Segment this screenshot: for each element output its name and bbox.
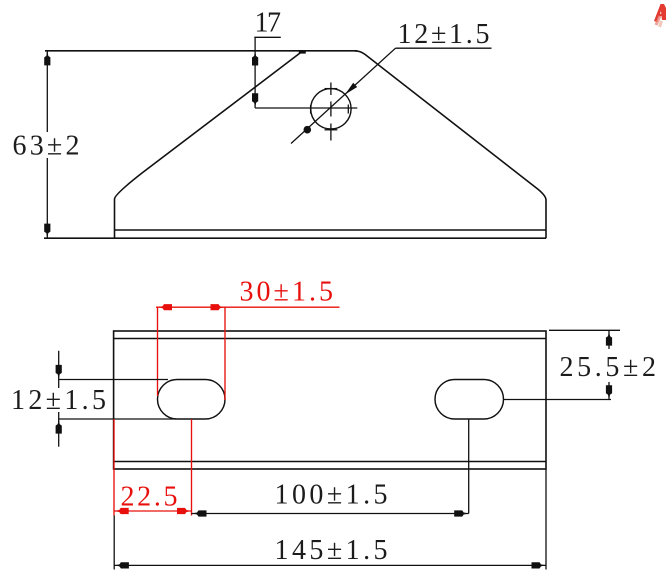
- hole center vertical tick: [330, 102, 332, 117]
- dim 12±1.5 lower extension (bottom view): [59, 418, 176, 420]
- dimension 25.5±2 vertical line: [608, 331, 610, 349]
- 145 right arrow: [532, 562, 547, 568]
- dim 12±1.5 vertical line: [58, 351, 60, 388]
- red corner mark (cropped stamp at top right): [654, 4, 666, 22]
- 145 left arrow: [114, 562, 128, 568]
- 100 right arrow: [454, 510, 469, 516]
- svg-text:63±2: 63±2: [13, 131, 80, 162]
- 25.5±2 bottom arrow: [606, 385, 612, 400]
- leader line for 12±1.5: [291, 48, 396, 143]
- red 30 right extension: [224, 307, 226, 400]
- 145 right extension: [545, 470, 547, 570]
- 12±1.5 lower arrow (points up): [56, 419, 62, 434]
- hole circle: [311, 89, 351, 129]
- dim 12±1.5 upper extension (bottom view): [59, 379, 168, 381]
- base bottom line with left extension: [44, 237, 546, 239]
- leader from slot 2 to 25.5 dim: [504, 399, 612, 401]
- dimension 17 lower arrow: [252, 93, 258, 108]
- svg-text:12±1.5: 12±1.5: [398, 19, 490, 50]
- red 22.5 left arrow: [114, 508, 129, 514]
- svg-text:22.5: 22.5: [121, 482, 178, 513]
- plate outline: [114, 331, 546, 469]
- red 22.5 right extension from slot1 center: [191, 419, 193, 515]
- leader dot: [304, 126, 312, 134]
- hole top quadrant cross: [330, 83, 332, 96]
- slot 1 (left obround): [158, 380, 226, 420]
- red 22.5 left extension (over plate edge): [113, 419, 115, 516]
- lower fold line: [114, 461, 546, 463]
- junction blob at top-left corner of slant: [299, 51, 306, 54]
- red 30 right arrow: [211, 304, 226, 310]
- dim 145±1.5 line: [114, 564, 546, 566]
- 100 left arrow: [192, 510, 207, 516]
- dimension 17 upper arrow: [252, 51, 258, 66]
- hole right quadrant tick: [347, 105, 349, 114]
- red 30 left extension: [157, 307, 159, 396]
- vertical leg from slot 2 to 100 dim: [468, 419, 470, 513]
- upper fold line: [114, 338, 546, 340]
- leader underline under 12±1.5: [396, 47, 492, 49]
- dimension 63±2 vertical line: [46, 51, 48, 132]
- hole bottom quadrant cross: [330, 124, 332, 141]
- hole left quadrant tick: [310, 105, 312, 114]
- slot 2 (right obround): [435, 380, 504, 420]
- dimension 17 vertical line: [254, 37, 256, 108]
- 12±1.5 upper arrow (points down): [56, 365, 62, 380]
- dim 100±1.5 line: [192, 513, 469, 515]
- text 17 underline: [254, 36, 280, 38]
- bracket outline left slant: [115, 51, 304, 238]
- base top line: [115, 229, 547, 231]
- red 30 left arrow: [158, 304, 173, 310]
- red dimension 30±1.5 line: [156, 306, 340, 308]
- red 22.5 right arrow: [177, 508, 192, 514]
- bracket outline right slant: [355, 51, 547, 238]
- 25.5±2 top arrow: [606, 331, 612, 346]
- svg-text:17: 17: [255, 8, 282, 39]
- dimension 25.5±2 top extension: [549, 329, 620, 331]
- 145 left extension: [113, 516, 115, 570]
- leader arrowhead at hole: [345, 83, 357, 95]
- dimension 63±2 bottom arrow: [44, 224, 50, 239]
- top edge line with left extension: [45, 50, 357, 52]
- dimension 63±2 top arrow: [44, 51, 50, 66]
- line from 17 dim to hole center: [255, 107, 357, 109]
- red dimension 22.5 line: [114, 510, 191, 512]
